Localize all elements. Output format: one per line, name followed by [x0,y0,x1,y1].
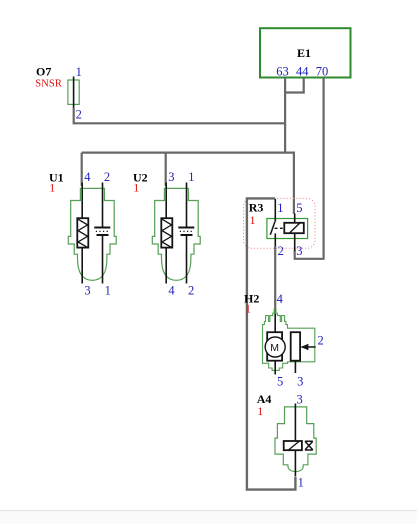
U1 coil zigzag [78,219,88,247]
H2 motor housing outline [263,313,315,370]
H2 pin 4 line [274,312,276,333]
U2 coil box [161,218,172,247]
R3 coil pin 3 line [294,233,296,251]
svg-text:E1: E1 [297,46,311,60]
U1 coil pin line [81,183,83,284]
bottom separator line [0,510,417,511]
wire drop to U2 pin 3 [165,153,167,186]
svg-text:1: 1 [105,283,111,297]
svg-text:5: 5 [296,201,302,215]
R3 coil box [284,223,304,233]
svg-text:2: 2 [318,334,324,348]
wire E1 pin 70 down and left up to R3 pin 3 [295,78,324,259]
svg-text:SNSR: SNSR [35,78,62,89]
A4 solenoid diagonal [289,441,300,450]
wire E1 pin 63 down to main bus [284,78,286,154]
wire to R3 pin 1 from left bus [247,197,275,199]
svg-text:3: 3 [297,375,303,389]
A4 spring symbol [305,441,313,450]
wire E1 pin 44 jog to pin 63 wire [284,78,304,93]
A4 center pin line [294,404,296,477]
R3 coil pin 5 line [294,214,296,223]
svg-text:1: 1 [188,170,194,184]
R3 coil diagonal [290,223,300,233]
U1 injector body outline [68,188,116,280]
U2 cap top plate [178,227,194,229]
svg-text:1: 1 [250,213,256,227]
R3 switch pin 2 line [274,233,276,247]
U2 right pin line upper [186,183,188,228]
relay R3 dotted enclosure [244,198,316,248]
R3 switch pin 1 line [274,199,276,222]
ECU box E1 [260,28,351,77]
svg-text:2: 2 [104,170,110,184]
H2 pin 4 green connector mark [274,309,277,314]
wire O7 pin 2 to E1 63 wire [74,108,285,124]
main bus wire to injectors and relay coil [82,153,294,214]
svg-text:3: 3 [84,283,90,297]
svg-text:63: 63 [276,65,289,79]
A4 solenoid box [284,441,302,450]
svg-text:3: 3 [296,244,302,258]
svg-text:3: 3 [297,393,303,407]
U2 coil zigzag [162,219,172,247]
svg-text:2: 2 [278,244,284,258]
svg-text:1: 1 [245,302,251,316]
wire drop to U1 pin 4 [81,153,83,186]
O7 sensor body (green rect) [68,80,79,104]
U1 right pin line upper [102,183,104,228]
R3 actuation dashed link [275,227,285,229]
svg-text:1: 1 [76,65,82,79]
U1 coil box [77,218,88,247]
svg-text:4: 4 [168,283,175,297]
svg-text:2: 2 [76,108,82,122]
H2 pin 3 line [294,361,296,373]
svg-text:4: 4 [84,170,91,184]
U1 cap top plate [94,227,110,229]
H2 pin 5 line [274,361,276,375]
svg-text:44: 44 [296,65,309,79]
svg-text:2: 2 [188,283,194,297]
svg-text:1: 1 [133,180,139,194]
R3 inner green box [267,219,308,239]
U2 right pin line lower [186,235,188,284]
U2 cap bottom plate [181,234,193,236]
svg-text:M: M [270,342,279,354]
O7 element line [73,77,75,109]
svg-text:1: 1 [49,180,55,194]
wire left vertical down to A4 pin 1 [247,197,296,489]
H2 pin 2 arrowhead [301,344,309,351]
U2 coil pin line [165,183,167,284]
svg-text:1: 1 [257,404,263,418]
H2 resistor rect [291,332,300,361]
A4 body outline [275,407,316,472]
U2 injector body outline [152,188,200,280]
H2 motor rect [267,332,282,361]
svg-text:70: 70 [316,65,329,79]
svg-text:3: 3 [168,170,174,184]
H2 motor circle [265,337,285,357]
svg-text:1: 1 [298,476,304,490]
wire R3 pin 2 down to H2 pin 4 [274,246,276,312]
svg-text:O7: O7 [36,64,51,78]
U1 right pin line lower [102,235,104,284]
R3 switch blade [270,222,275,235]
U2 cap dotted row [180,230,194,232]
svg-text:5: 5 [277,375,283,389]
U1 cap dotted row [96,230,110,232]
svg-text:4: 4 [277,292,284,306]
H2 pin 2 arrow line [302,346,316,348]
U1 cap bottom plate [97,234,109,236]
svg-text:1: 1 [277,201,283,215]
